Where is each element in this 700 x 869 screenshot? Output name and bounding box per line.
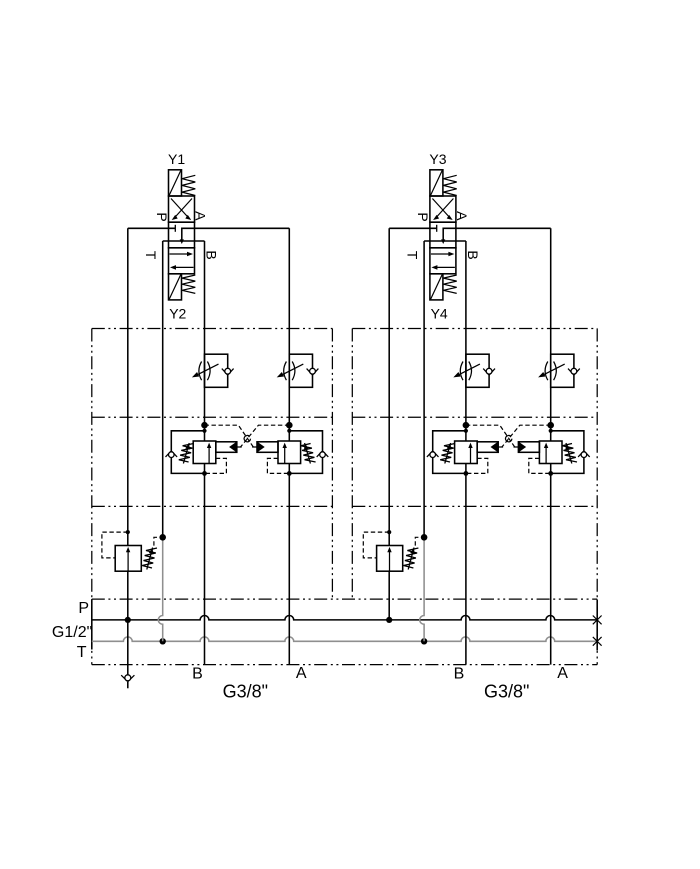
manifold right section divider 2	[352, 505, 597, 507]
wire B column upper	[465, 241, 467, 441]
relief drain junction dot	[159, 534, 166, 541]
manifold left section divider 2	[92, 505, 333, 507]
counterbalance B bypass loop	[171, 431, 204, 474]
wire B column lower	[465, 464, 467, 665]
pilot crossing loop	[506, 435, 512, 441]
counterbalance B pilot stub	[498, 446, 503, 448]
svg-text:G3/8": G3/8"	[484, 682, 529, 702]
wire valve to A column	[182, 228, 289, 241]
check valve in flow control B	[483, 369, 489, 376]
cross pilot line from B side	[466, 425, 515, 447]
T line plug cross	[593, 637, 602, 646]
pilot crossing loop	[244, 435, 250, 441]
spring top of valve Y1	[182, 175, 195, 195]
svg-text:G3/8": G3/8"	[223, 682, 268, 702]
cross pilot line from A side	[502, 425, 551, 447]
counterbalance A bypass check valve	[317, 451, 322, 457]
solenoid Y3 stroke	[431, 171, 443, 196]
throttle arcs B	[199, 362, 202, 381]
arrow left in box b	[436, 266, 455, 268]
throttle arcs A	[545, 362, 548, 381]
counterbalance A pilot piston box	[518, 442, 539, 453]
manifold left section divider 1	[92, 416, 333, 418]
wire valve to A column	[443, 228, 551, 241]
valve centre position box	[430, 222, 456, 248]
counterbalance B bottom junction dot	[464, 471, 469, 476]
wire B column lower	[204, 464, 206, 665]
P line junction dot	[125, 617, 131, 623]
counterbalance B main box	[455, 441, 478, 464]
svg-text:B: B	[465, 250, 481, 259]
wire junction arrowhead	[441, 239, 445, 244]
counterbalance B spring	[179, 444, 194, 463]
counterbalance A pilot junction dot	[286, 422, 293, 429]
blocked port T-bar	[436, 225, 438, 232]
wire A column upper	[550, 228, 552, 441]
manifold enclosure left top border	[92, 328, 333, 330]
throttle adjust arrow B	[198, 364, 219, 374]
throttle adjust arrow B	[459, 364, 480, 374]
counterbalance A pilot arrow	[519, 442, 526, 452]
svg-text:A: A	[193, 211, 209, 221]
counterbalance A spring	[301, 444, 316, 463]
counterbalance A pilot junction dot	[547, 422, 554, 429]
counterbalance B pilot stub	[237, 446, 242, 448]
counterbalance A main box	[539, 441, 562, 464]
relief valve pilot junction dot	[387, 530, 391, 534]
wire T column	[162, 241, 164, 537]
flow control valve B box	[466, 354, 489, 387]
svg-text:P: P	[415, 212, 431, 221]
svg-text:A: A	[557, 665, 568, 682]
counterbalance A pilot stub	[514, 446, 519, 448]
counterbalance A bypass check valve	[578, 451, 583, 457]
solenoid Y2 box	[169, 274, 182, 300]
relief valve output column	[127, 571, 129, 620]
counterbalance B internal arrow	[208, 447, 210, 463]
wire T column drain gray	[420, 537, 424, 641]
wire P column upper	[127, 228, 129, 545]
counterbalance A bypass junction dot	[287, 429, 291, 433]
counterbalance B bypass junction dot	[464, 429, 468, 433]
wire junction arrowhead	[180, 239, 184, 244]
svg-text:A: A	[454, 211, 470, 221]
counterbalance A pilot arrow	[257, 442, 264, 452]
crossed arrow 2	[432, 199, 450, 219]
svg-text:B: B	[203, 250, 219, 259]
relief valve box	[377, 546, 403, 572]
crossed arrow 1	[174, 199, 192, 219]
counterbalance A bypass loop	[289, 431, 322, 474]
counterbalance B pilot piston box	[477, 442, 498, 453]
relief valve box	[115, 546, 141, 572]
solenoid Y4 stroke	[431, 275, 443, 300]
relief valve pilot dashed line	[363, 532, 389, 558]
svg-text:A: A	[296, 665, 307, 682]
cross pilot line from B side	[205, 425, 254, 447]
counterbalance B main box	[193, 441, 216, 464]
valve centre position box	[169, 222, 195, 248]
wire P to valve	[389, 227, 437, 229]
wire P to valve	[128, 227, 176, 229]
counterbalance B pilot arrow	[229, 442, 236, 452]
manifold right section divider 1	[352, 416, 597, 418]
counterbalance A internal arrow	[545, 447, 547, 463]
relief valve internal arrow	[389, 552, 391, 571]
P gallery line	[92, 616, 597, 620]
line P to bottom check	[127, 620, 129, 675]
solenoid Y4 box	[430, 274, 443, 300]
counterbalance B drain pilot dashed	[205, 458, 227, 473]
crossed arrow 1	[435, 199, 453, 219]
wire P column upper	[388, 228, 390, 545]
wire T-B header	[163, 240, 205, 242]
right border solid segment	[596, 600, 598, 651]
manifold enclosure left right border	[331, 329, 333, 600]
wire B column upper	[204, 241, 206, 441]
T line junction dot right	[421, 638, 427, 644]
counterbalance B pilot piston box	[216, 442, 237, 453]
valve position box a (crossed arrows)	[169, 196, 195, 222]
svg-text:P: P	[154, 212, 170, 221]
svg-text:T: T	[405, 251, 421, 260]
manifold enclosure right right border	[596, 329, 598, 665]
counterbalance A bypass loop	[551, 431, 584, 474]
flow control valve A box	[289, 354, 312, 387]
flow control valve B box	[205, 354, 228, 387]
svg-text:Y2: Y2	[169, 305, 186, 321]
spring bottom of valve Y4	[443, 275, 456, 293]
arrow right in box b	[431, 253, 450, 255]
valve position box b (parallel arrows)	[169, 248, 195, 274]
throttle adjust arrow A	[283, 364, 304, 374]
manifold enclosure right top border	[352, 328, 597, 330]
relief valve drain dashed	[154, 537, 160, 545]
counterbalance A bypass junction dot	[549, 429, 553, 433]
svg-text:B: B	[192, 665, 203, 682]
counterbalance B bottom junction dot	[202, 471, 207, 476]
wire A column upper	[288, 228, 290, 441]
counterbalance B bypass check valve	[427, 451, 432, 457]
spring bottom of valve Y2	[182, 275, 195, 293]
relief valve output column	[388, 571, 390, 620]
valve position box b (parallel arrows)	[430, 248, 456, 274]
relief drain junction dot	[421, 534, 428, 541]
solenoid Y3 box	[430, 170, 443, 196]
check valve in flow control A	[568, 369, 574, 376]
arrow right in box b	[170, 253, 189, 255]
counterbalance A drain pilot dashed	[529, 458, 551, 473]
spring top of valve Y3	[443, 175, 456, 195]
T gallery line	[92, 637, 597, 641]
arrow left in box b	[175, 266, 194, 268]
valve position box a (crossed arrows)	[430, 196, 456, 222]
wire T-B header	[424, 240, 466, 242]
counterbalance B bypass junction dot	[202, 429, 206, 433]
manifold bottom border	[92, 664, 597, 666]
counterbalance B spring	[440, 444, 455, 463]
counterbalance A pilot piston box	[257, 442, 278, 453]
relief valve drain dashed	[415, 537, 421, 545]
throttle arcs B	[460, 362, 463, 381]
wire A column lower	[288, 464, 290, 665]
svg-text:Y3: Y3	[429, 151, 446, 167]
manifold enclosure left left border	[91, 329, 93, 665]
counterbalance A drain pilot dashed	[267, 458, 289, 473]
blocked port T-bar	[174, 225, 176, 232]
manifold enclosure right left border	[351, 329, 353, 600]
counterbalance A pilot stub	[252, 446, 257, 448]
solenoid Y1 stroke	[169, 171, 181, 196]
relief valve pilot dashed line	[102, 532, 128, 558]
counterbalance A main box	[278, 441, 301, 464]
relief valve pilot junction dot	[126, 530, 130, 534]
svg-text:T: T	[77, 644, 87, 661]
svg-text:G1/2": G1/2"	[52, 624, 92, 641]
throttle adjust arrow A	[544, 364, 565, 374]
counterbalance A bottom junction dot	[548, 471, 553, 476]
wire T column drain gray	[158, 537, 162, 641]
counterbalance B pilot junction dot	[201, 422, 208, 429]
relief valve internal arrow	[127, 552, 129, 571]
counterbalance A spring	[562, 444, 577, 463]
bottom check valve	[121, 675, 128, 682]
crossed arrow 2	[171, 199, 189, 219]
solenoid Y1 box	[169, 170, 182, 196]
flow control valve A box	[551, 354, 574, 387]
svg-text:Y4: Y4	[431, 305, 448, 321]
svg-text:P: P	[78, 600, 89, 617]
counterbalance A bottom junction dot	[287, 471, 292, 476]
throttle arcs A	[284, 362, 287, 381]
counterbalance B bypass loop	[433, 431, 466, 474]
counterbalance B internal arrow	[470, 447, 472, 463]
counterbalance B bypass check valve	[166, 451, 171, 457]
T line junction dot left	[160, 638, 166, 644]
P line junction dot	[386, 617, 392, 623]
cross pilot line from A side	[241, 425, 290, 447]
svg-text:T: T	[143, 251, 159, 260]
wire T column	[423, 241, 425, 537]
svg-text:B: B	[454, 665, 465, 682]
wire A column lower	[550, 464, 552, 665]
svg-text:Y1: Y1	[168, 151, 185, 167]
relief valve spring	[404, 548, 419, 568]
counterbalance B pilot junction dot	[463, 422, 470, 429]
check valve in flow control A	[307, 369, 313, 376]
left border solid segment	[91, 599, 93, 649]
solenoid Y2 stroke	[169, 275, 181, 300]
P line plug cross	[593, 616, 602, 625]
counterbalance B drain pilot dashed	[466, 458, 488, 473]
counterbalance A internal arrow	[284, 447, 286, 463]
check valve in flow control B	[222, 369, 228, 376]
relief valve spring	[142, 548, 157, 568]
counterbalance B pilot arrow	[491, 442, 498, 452]
manifold footer divider	[92, 598, 597, 600]
bottom check stub	[127, 682, 129, 688]
